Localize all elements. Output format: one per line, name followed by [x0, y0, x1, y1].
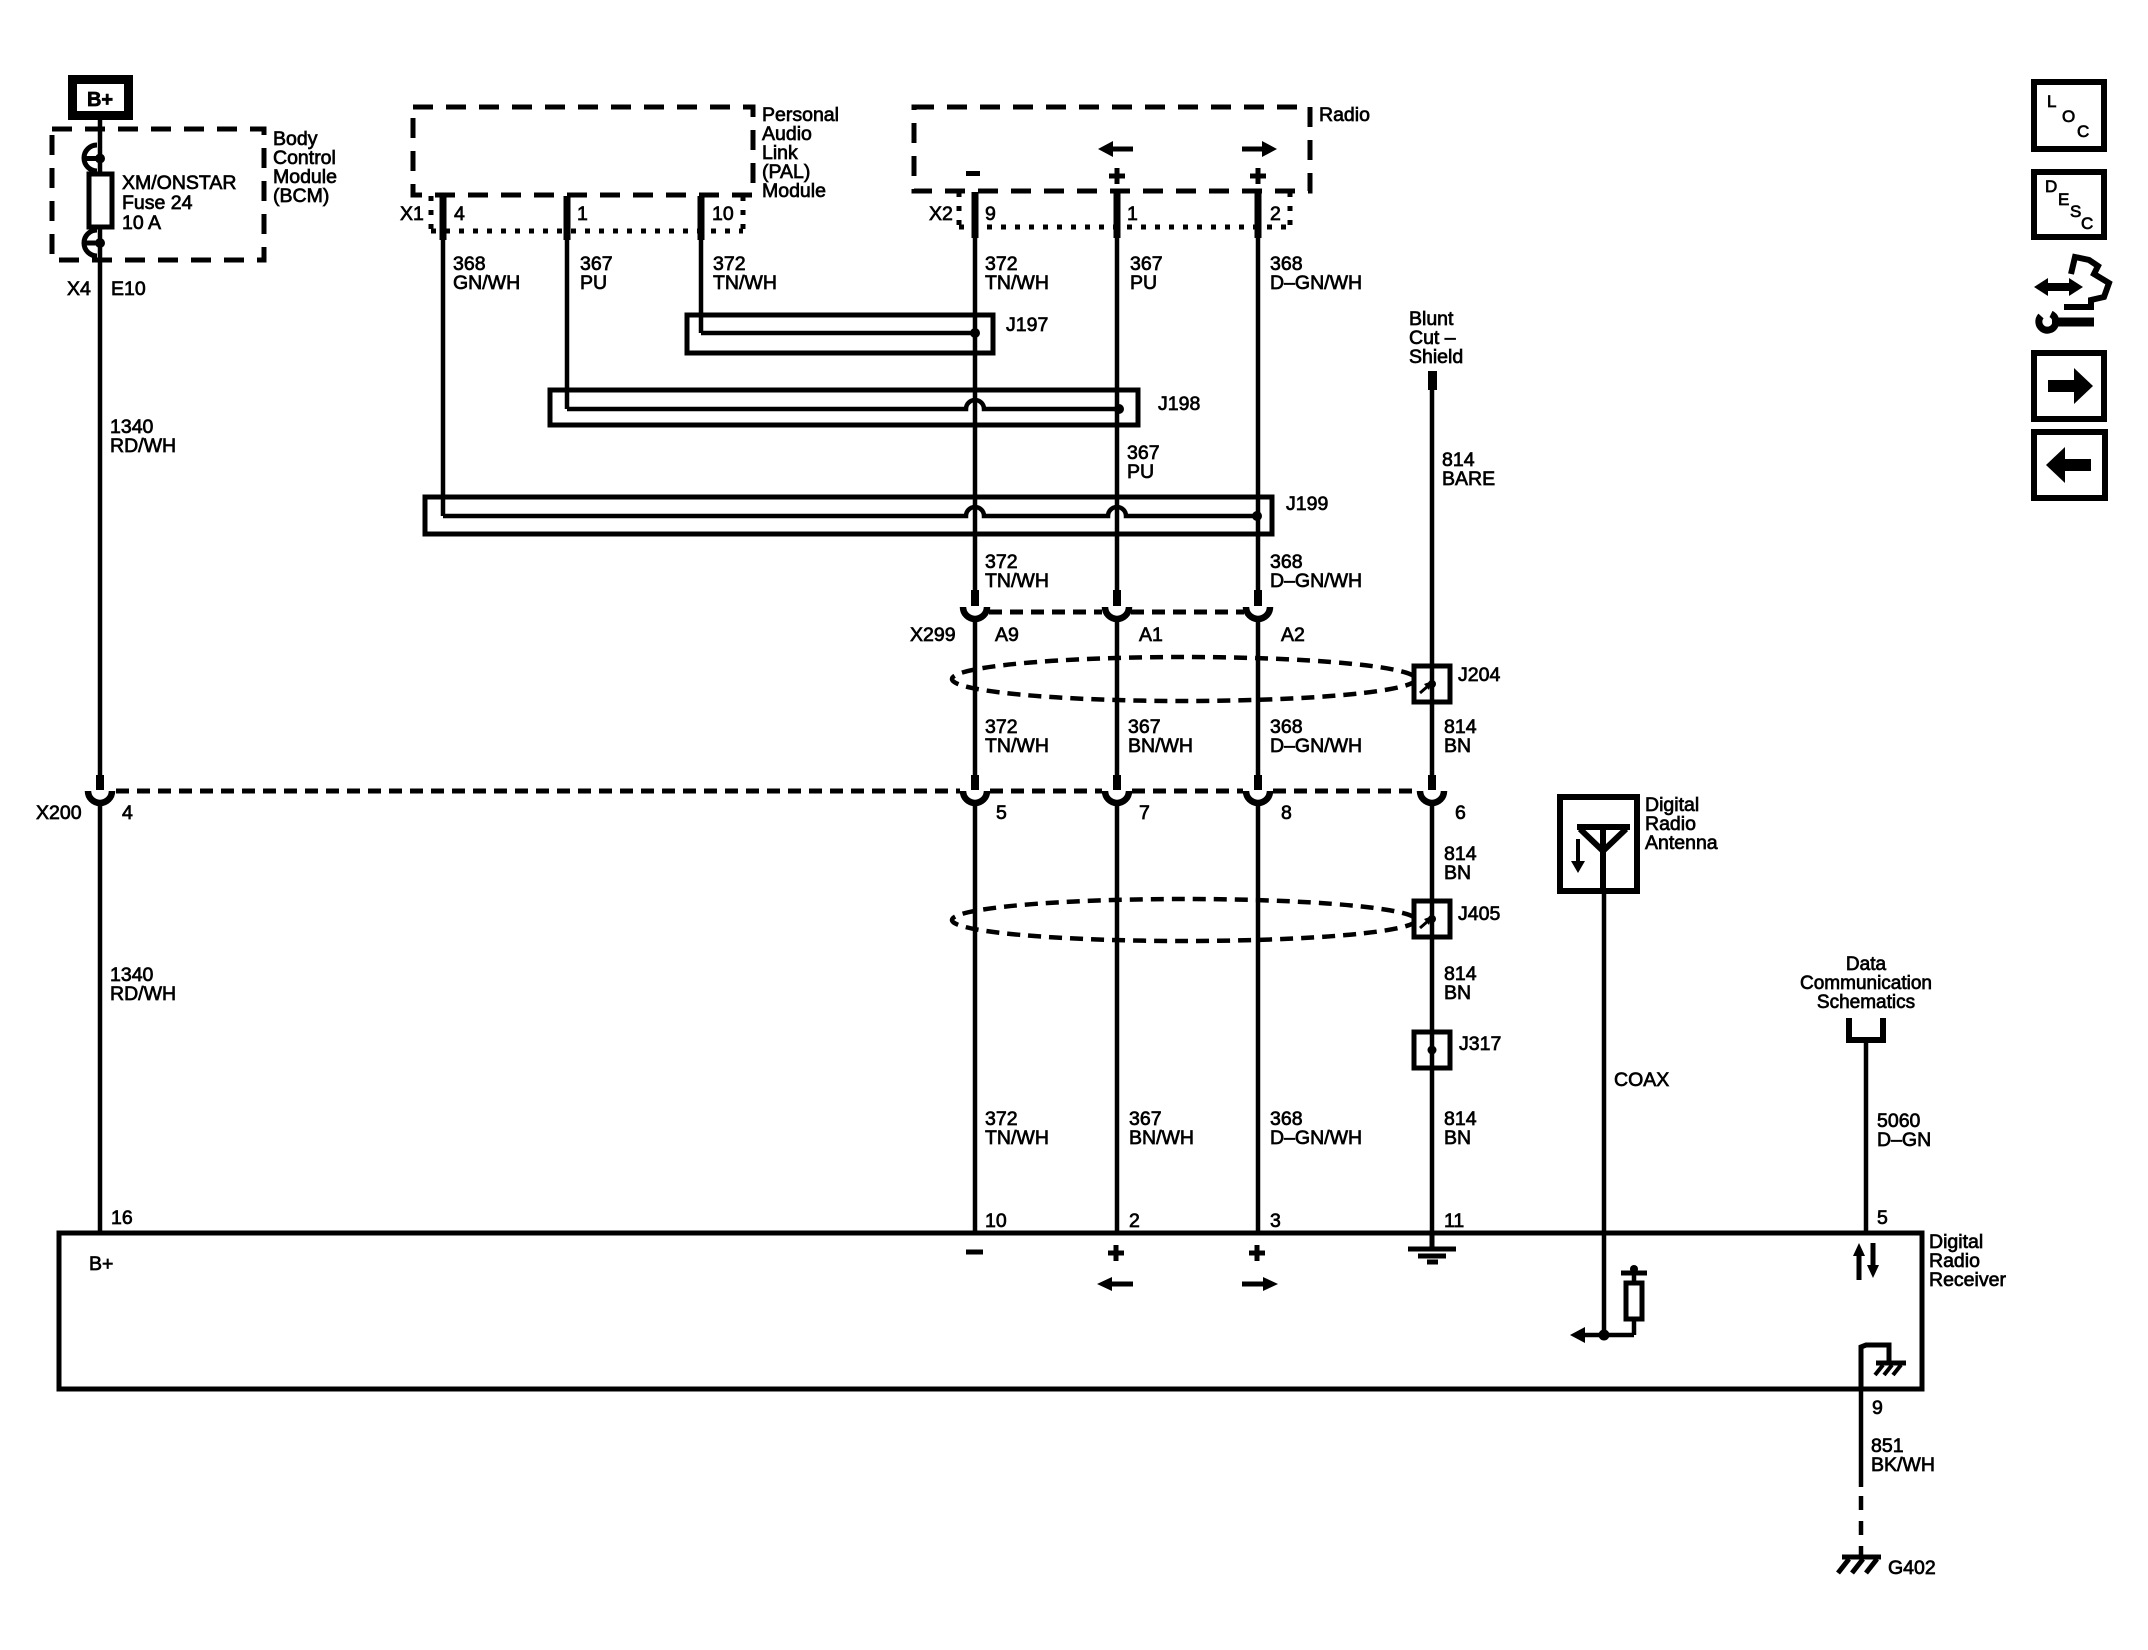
svg-text:D: D [2045, 177, 2057, 196]
wire 851 BK/WH [1859, 1389, 1864, 1487]
label 367 BN/WH row3 [1128, 716, 1193, 757]
svg-text:PU: PU [580, 272, 607, 294]
power symbol B+ feed [68, 75, 133, 120]
connector X200 terminal 5 [963, 775, 987, 803]
wire 814 BN J204 to X200 [1430, 702, 1435, 775]
label 814 BARE [1442, 449, 1495, 490]
pin 9 radio terminal [975, 192, 996, 238]
svg-text:TN/WH: TN/WH [713, 272, 777, 294]
connector X2 pin row dotted box [959, 192, 1290, 227]
svg-text:1: 1 [577, 203, 588, 225]
pin 2 radio terminal [1258, 192, 1281, 238]
label X200 and pins 4 5 7 8 6 [36, 802, 1466, 824]
wire COAX [1602, 891, 1607, 1335]
label 814 BN row3 [1444, 716, 1477, 757]
fuse F24 XM/ONSTAR 10A [89, 172, 236, 234]
svg-text:6: 6 [1455, 802, 1466, 824]
icon wrench [2039, 314, 2094, 330]
radio right audio arrow [1242, 141, 1277, 157]
svg-text:BN: BN [1444, 862, 1471, 884]
blunt cut terminal stub [1428, 371, 1437, 390]
svg-text:L: L [2047, 92, 2056, 111]
fuse clip bottom [84, 230, 105, 256]
svg-text:4: 4 [454, 203, 465, 225]
wire 814 BARE [1430, 390, 1435, 666]
shield twisting ellipse J204 [952, 657, 1416, 701]
svg-text:X200: X200 [36, 802, 82, 824]
svg-text:Data: Data [1846, 954, 1887, 975]
svg-text:5: 5 [1877, 1207, 1888, 1229]
wire 814 BN J317 to receiver [1430, 1068, 1435, 1233]
svg-text:TN/WH: TN/WH [985, 1127, 1049, 1149]
label 367 PU mid [1127, 442, 1160, 483]
svg-text:Radio: Radio [1319, 104, 1370, 126]
receiver chassis ground pin 9 [1861, 1345, 1906, 1389]
svg-text:E: E [2058, 190, 2069, 209]
label 814 BN row4 [1444, 1108, 1477, 1149]
svg-text:(BCM): (BCM) [273, 185, 329, 207]
svg-text:J199: J199 [1286, 493, 1328, 515]
svg-text:BN/WH: BN/WH [1129, 1127, 1194, 1149]
connector X299 terminal A1 [1105, 590, 1129, 619]
splice J197 [687, 240, 1048, 353]
wire 1340 RD/WH upper segment [98, 227, 103, 776]
fuse clip top [84, 145, 105, 171]
svg-text:GN/WH: GN/WH [453, 272, 520, 294]
svg-text:TN/WH: TN/WH [985, 272, 1049, 294]
digital radio antenna box [1560, 797, 1637, 891]
label X299 and pins A9 A1 A2 [910, 624, 1305, 646]
svg-text:3: 3 [1270, 1210, 1281, 1232]
module BCM dashed box [52, 129, 264, 260]
pin 4 PAL terminal [443, 196, 465, 240]
label 368 D-GN/WH row3 [1270, 716, 1362, 757]
receiver plus mark left [1108, 1245, 1124, 1261]
svg-text:G402: G402 [1888, 1557, 1936, 1579]
label X2 [929, 203, 953, 225]
receiver minus mark [966, 1250, 983, 1255]
svg-text:Fuse 24: Fuse 24 [122, 192, 193, 214]
wire 372 TN/WH vertical [973, 238, 978, 1233]
svg-text:J198: J198 [1158, 393, 1200, 415]
svg-text:D–GN/WH: D–GN/WH [1270, 272, 1362, 294]
connector X4 pin E10 [67, 278, 146, 300]
connector X200 terminal 8 [1246, 775, 1270, 803]
svg-text:C: C [2081, 214, 2093, 233]
icon left arrow box [2034, 432, 2105, 498]
label Data Communication Schematics [1800, 954, 1932, 1013]
svg-text:1: 1 [1127, 203, 1138, 225]
module Personal Audio Link PAL dashed box [413, 107, 753, 195]
antenna down arrow [1571, 839, 1585, 873]
svg-text:O: O [2062, 107, 2075, 126]
connector X200 terminal 7 [1105, 775, 1129, 803]
label 372 TN/WH left [713, 253, 777, 294]
svg-text:Communication: Communication [1800, 973, 1932, 994]
ground G402 [1838, 1557, 1936, 1579]
pin 10 PAL terminal [701, 196, 734, 240]
svg-text:BK/WH: BK/WH [1871, 1454, 1935, 1476]
receiver ground pin 11 [1408, 1235, 1456, 1262]
svg-text:11: 11 [1444, 1210, 1464, 1232]
svg-text:BN: BN [1444, 982, 1471, 1004]
svg-text:J197: J197 [1006, 314, 1048, 336]
receiver left arrow [1097, 1277, 1133, 1291]
label 368 D-GN/WH radio [1270, 253, 1362, 294]
svg-text:X299: X299 [910, 624, 956, 646]
label X1 [400, 203, 424, 225]
antenna symbol [1577, 827, 1630, 891]
label Digital Radio Receiver [1929, 1231, 2006, 1291]
svg-text:7: 7 [1139, 802, 1150, 824]
icon DESC box [2034, 172, 2104, 237]
label Radio [1319, 104, 1370, 126]
svg-text:10: 10 [712, 203, 734, 225]
svg-text:9: 9 [1872, 1397, 1883, 1419]
svg-text:10 A: 10 A [122, 212, 161, 234]
svg-text:4: 4 [122, 802, 133, 824]
connector X1 pin row dotted box [431, 196, 743, 231]
splice J198 [550, 240, 1200, 425]
svg-text:5: 5 [996, 802, 1007, 824]
svg-text:X1: X1 [400, 203, 424, 225]
label 814 BN below J405 [1444, 963, 1477, 1004]
connector X299 terminal A2 [1246, 590, 1270, 619]
receiver plus mark right [1249, 1245, 1265, 1261]
label 851 BK/WH [1871, 1435, 1935, 1476]
radio left audio arrow [1098, 141, 1133, 157]
splice J199 [425, 240, 1328, 534]
pin 1 radio terminal [1117, 192, 1138, 238]
connector X299 terminal A9 [963, 590, 987, 619]
label 368 D-GN/WH row2 [1270, 551, 1362, 592]
svg-text:A2: A2 [1281, 624, 1305, 646]
splice J204 box [1414, 664, 1500, 702]
svg-text:J204: J204 [1458, 664, 1500, 686]
svg-text:B+: B+ [87, 89, 113, 111]
svg-text:BN: BN [1444, 735, 1471, 757]
receiver coax junction and arrow [1570, 1327, 1634, 1343]
splice J317 box [1414, 1032, 1501, 1068]
wire 1340 RD/WH lower segment [98, 804, 103, 1233]
icon harness outline [2064, 257, 2109, 307]
receiver coax termination resistor [1621, 1265, 1647, 1335]
svg-text:D–GN: D–GN [1877, 1129, 1931, 1151]
svg-text:9: 9 [985, 203, 996, 225]
icon right arrow box [2034, 353, 2104, 419]
svg-text:S: S [2070, 202, 2081, 221]
label 1340 RD/WH lower [110, 964, 176, 1005]
connector X200 dashed line [116, 789, 1417, 794]
svg-text:16: 16 [111, 1207, 133, 1229]
svg-text:X2: X2 [929, 203, 953, 225]
svg-text:Shield: Shield [1409, 346, 1463, 368]
label 372 TN/WH radio [985, 253, 1049, 294]
label 814 BN below X200 [1444, 843, 1477, 884]
svg-text:TN/WH: TN/WH [985, 735, 1049, 757]
svg-text:BN/WH: BN/WH [1128, 735, 1193, 757]
label 1340 RD/WH upper [110, 416, 176, 457]
label Body Control Module (BCM) [273, 128, 337, 207]
label 372 TN/WH row4 [985, 1108, 1049, 1149]
receiver pin labels [111, 1207, 1888, 1232]
radio plus right [1250, 168, 1266, 184]
connector X299 dashed line [989, 610, 1244, 615]
svg-text:D–GN/WH: D–GN/WH [1270, 735, 1362, 757]
svg-text:A1: A1 [1139, 624, 1163, 646]
svg-text:Receiver: Receiver [1929, 1269, 2006, 1291]
label 5060 D-GN [1877, 1110, 1931, 1151]
label 367 PU radio [1130, 253, 1163, 294]
wire B+ to fuse [98, 120, 103, 174]
svg-text:C: C [2077, 122, 2089, 141]
svg-text:RD/WH: RD/WH [110, 983, 176, 1005]
svg-text:Antenna: Antenna [1645, 832, 1718, 854]
label Blunt Cut Shield [1409, 308, 1463, 368]
label 368 D-GN/WH row4 [1270, 1108, 1362, 1149]
wire 814 BN X200 to J405 [1430, 804, 1435, 901]
svg-text:B+: B+ [89, 1253, 113, 1275]
module Radio dashed box [914, 107, 1310, 191]
wire 5060 D-GN [1864, 1043, 1869, 1233]
module Digital Radio Receiver box [59, 1233, 1922, 1389]
icon LOC box [2034, 82, 2104, 149]
svg-text:BARE: BARE [1442, 468, 1495, 490]
svg-text:COAX: COAX [1614, 1069, 1669, 1091]
off-page connector bracket [1849, 1018, 1883, 1040]
svg-text:A9: A9 [995, 624, 1019, 646]
label 372 TN/WH row3 [985, 716, 1049, 757]
receiver B+ label [89, 1253, 113, 1275]
svg-text:PU: PU [1130, 272, 1157, 294]
label 367 BN/WH row4 [1129, 1108, 1194, 1149]
svg-text:D–GN/WH: D–GN/WH [1270, 570, 1362, 592]
svg-text:BN: BN [1444, 1127, 1471, 1149]
svg-text:D–GN/WH: D–GN/WH [1270, 1127, 1362, 1149]
label 372 TN/WH row2 [985, 551, 1049, 592]
svg-text:2: 2 [1270, 203, 1281, 225]
svg-text:E10: E10 [111, 278, 146, 300]
radio polarity minus [966, 171, 980, 176]
icon harness double arrow [2034, 278, 2083, 296]
wire 851 dashed to ground [1859, 1496, 1864, 1556]
svg-text:8: 8 [1281, 802, 1292, 824]
wire 814 BN J405 to J317 [1430, 937, 1435, 1032]
svg-text:PU: PU [1127, 461, 1154, 483]
receiver up-down arrows pin 5 [1853, 1243, 1879, 1280]
label 814 BN below J204 [0, 0, 1, 1]
svg-text:Schematics: Schematics [1817, 992, 1915, 1013]
wire 367 PU/BN/WH vertical [1115, 238, 1120, 1233]
label 368 GN/WH [453, 253, 520, 294]
svg-text:XM/ONSTAR: XM/ONSTAR [122, 172, 236, 194]
shield twisting ellipse J405 [952, 899, 1416, 941]
label 367 PU left [580, 253, 613, 294]
pin 9 label [1872, 1397, 1883, 1419]
connector X200 terminal 6 [1420, 775, 1444, 803]
svg-text:TN/WH: TN/WH [985, 570, 1049, 592]
svg-text:10: 10 [985, 1210, 1007, 1232]
svg-text:RD/WH: RD/WH [110, 435, 176, 457]
svg-text:Module: Module [762, 180, 826, 202]
svg-text:X4: X4 [67, 278, 91, 300]
label COAX [1614, 1069, 1669, 1091]
svg-text:J317: J317 [1459, 1033, 1501, 1055]
svg-text:2: 2 [1129, 1210, 1140, 1232]
label Digital Radio Antenna [1645, 794, 1718, 854]
label Personal Audio Link (PAL) Module [762, 104, 839, 202]
radio plus left [1109, 168, 1125, 184]
svg-text:J405: J405 [1458, 903, 1500, 925]
wire 368 D-GN/WH vertical [1256, 238, 1261, 1233]
splice J405 box [1414, 901, 1500, 937]
receiver right arrow [1242, 1277, 1278, 1291]
connector X200 terminal 4 [88, 775, 112, 803]
pin 1 PAL terminal [567, 196, 588, 240]
